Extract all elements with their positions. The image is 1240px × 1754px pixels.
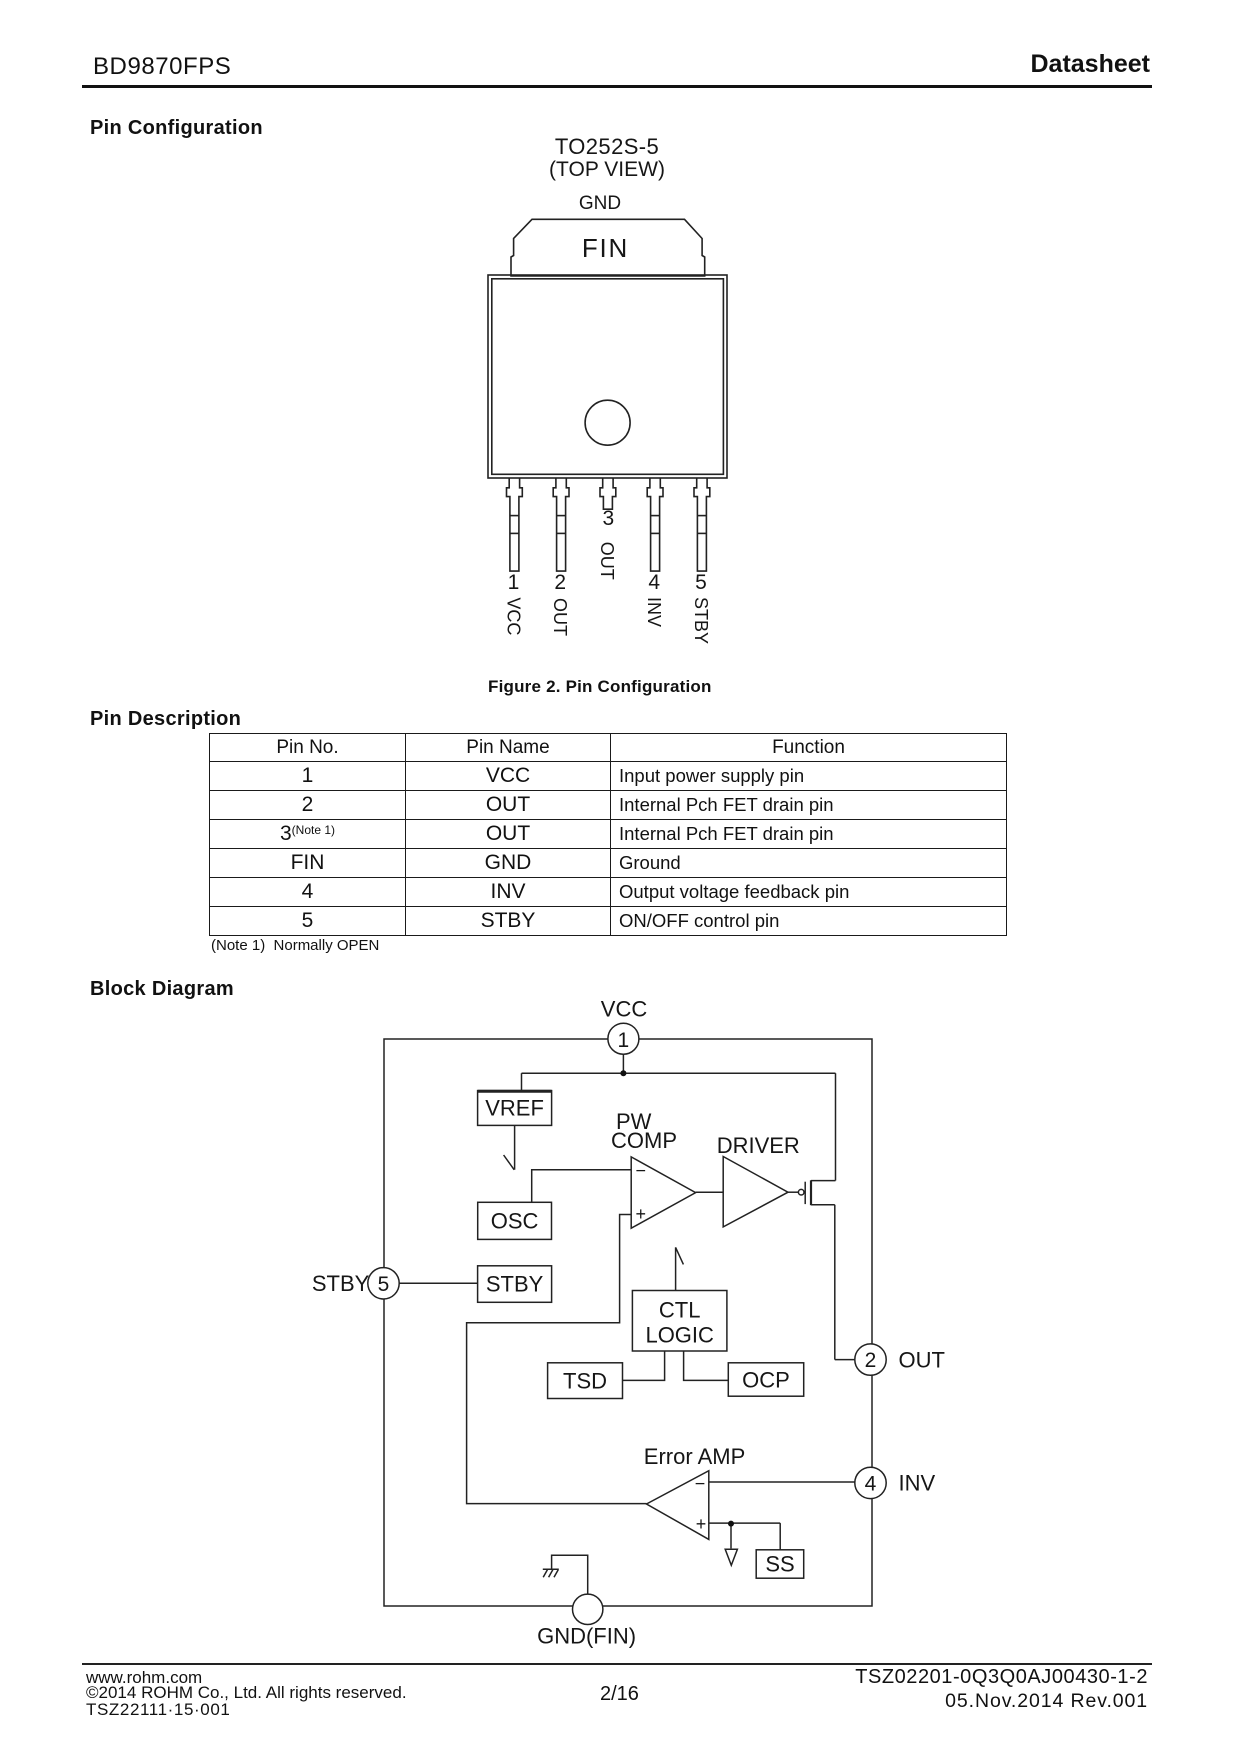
footer page number [600,1683,639,1706]
pin circle 2 OUT [855,1344,886,1375]
wire drain down [834,1205,836,1360]
box SS [756,1550,804,1578]
header product name [93,53,231,81]
transistor source stub [811,1180,836,1182]
pin circle 4 INV [855,1467,886,1498]
wire gnd branch [552,1555,588,1594]
box OSC [478,1202,552,1239]
header doc type [1031,50,1151,79]
svg-text:OSC: OSC [491,1209,539,1234]
svg-text:TO252S-5: TO252S-5 [555,134,659,159]
footer left line 2 [86,1683,407,1703]
package body outer rect [488,275,727,478]
svg-text:DRIVER: DRIVER [717,1133,800,1158]
PACKAGE FIGURE SVG [420,130,810,710]
wire ctl to ocp [684,1351,729,1380]
svg-text:STBY: STBY [486,1272,544,1297]
pin 4 lead [647,478,663,571]
pin 2 lead [553,478,569,571]
svg-text:STBY: STBY [691,597,711,644]
svg-text:2: 2 [554,571,566,594]
svg-text:OUT: OUT [899,1348,945,1373]
wire plus input down arrow [730,1524,732,1549]
wire comp to driver [696,1191,724,1193]
table note [211,937,379,954]
earth symbol hatches [543,1570,558,1577]
wire vcc stub [622,1054,624,1073]
header rule [82,85,1152,88]
pin circle GND [573,1594,603,1624]
svg-text:3: 3 [602,507,614,530]
svg-text:TSD: TSD [563,1369,607,1394]
svg-text:+: + [696,1514,707,1534]
wire ss drop [779,1523,781,1550]
section heading Block Diagram [90,978,234,1001]
buffer DRIVER triangle [723,1157,788,1227]
wire osc riser [532,1170,632,1203]
footer doc number [855,1666,1148,1689]
BLOCK DIAGRAM SVG [300,975,980,1675]
box TSD [548,1363,623,1399]
svg-text:STBY: STBY [312,1271,370,1296]
svg-text:INV: INV [644,597,664,627]
svg-text:1: 1 [618,1029,630,1052]
transistor gate bar [804,1182,806,1204]
svg-text:VCC: VCC [601,997,648,1022]
wire comp plus feedback path [467,1215,647,1504]
box CTL LOGIC [632,1291,727,1352]
svg-text:Error AMP: Error AMP [644,1444,745,1469]
svg-text:(TOP VIEW): (TOP VIEW) [549,158,665,181]
box VREF thick top edge [478,1090,552,1093]
wire error amp plus input [709,1522,780,1524]
transistor channel bar [810,1180,812,1205]
box VREF [478,1091,552,1126]
wire vcc rail [522,1072,836,1074]
svg-text:INV: INV [899,1471,936,1496]
junction dot ss [728,1521,734,1527]
transistor gate bubble [798,1189,804,1195]
wire ctl to tsd [623,1351,665,1380]
op-amp Error AMP triangle [647,1471,709,1540]
pin description table [209,733,1007,936]
svg-text:+: + [636,1204,647,1224]
svg-text:VREF: VREF [485,1096,544,1121]
svg-text:5: 5 [695,571,707,594]
pulse flag symbol [676,1247,684,1290]
wire drain to out pin [835,1359,857,1361]
package tab outline [511,219,705,276]
svg-text:−: − [636,1161,647,1181]
svg-text:4: 4 [865,1473,877,1496]
package body inner rect [492,279,724,475]
footer rule [82,1663,1152,1665]
svg-text:LOGIC: LOGIC [645,1323,714,1348]
junction dot vcc [620,1070,626,1076]
section heading Pin Configuration [90,117,263,140]
svg-text:FIN: FIN [582,233,629,263]
svg-text:OUT: OUT [597,542,617,580]
svg-text:COMP: COMP [611,1128,677,1153]
svg-text:CTL: CTL [659,1298,701,1323]
svg-text:GND: GND [579,193,621,214]
wire source to vcc rail [835,1073,837,1180]
pin circle 1 VCC [608,1023,639,1054]
section heading Pin Description [90,708,241,731]
box OCP [728,1363,803,1396]
footer left line 3 [86,1700,230,1720]
figure caption [488,677,712,697]
earth symbol bar [543,1568,559,1570]
svg-text:VCC: VCC [503,597,523,635]
svg-text:4: 4 [648,571,660,594]
wire vref riser [521,1073,523,1090]
pin 1 lead [507,478,523,571]
op-amp PW COMP triangle [631,1157,695,1228]
wire error amp minus input [709,1481,857,1483]
index circle [585,400,630,445]
footer left line 1 [86,1668,202,1688]
svg-text:GND(FIN): GND(FIN) [537,1624,636,1649]
box STBY [478,1266,552,1303]
sawtooth ramp symbol [504,1125,515,1169]
footer revision date [945,1690,1148,1713]
transistor drain stub [811,1204,835,1206]
pin 3 lead (short) [600,478,616,509]
svg-text:2: 2 [865,1349,877,1372]
wire stby pin to box [398,1282,478,1284]
svg-text:OCP: OCP [742,1368,790,1393]
pin circle 5 STBY [368,1268,399,1299]
open arrowhead to gnd [725,1549,737,1565]
svg-text:5: 5 [378,1273,390,1296]
svg-text:OUT: OUT [550,598,570,636]
wire driver to gate bubble [788,1191,799,1193]
svg-text:1: 1 [508,571,520,594]
svg-text:−: − [695,1474,706,1494]
block outline box [384,1039,872,1606]
pin 5 lead [694,478,710,571]
svg-text:SS: SS [765,1552,794,1577]
